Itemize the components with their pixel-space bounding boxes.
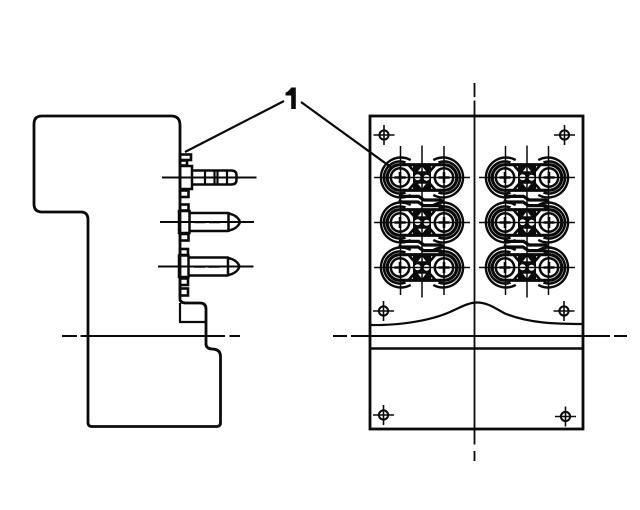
leader line left [185, 101, 284, 152]
left view centerline [62, 335, 240, 337]
hole top-left [374, 125, 395, 145]
link row1-2 right [505, 194, 548, 209]
right view lower inner line [370, 347, 583, 350]
tooth t8 [180, 289, 188, 296]
stud 2 cone tip [229, 214, 241, 231]
hole top-right [554, 125, 575, 145]
port feature row3 left [381, 248, 463, 288]
stud 1 thread lines [205, 171, 227, 185]
stud 3 shaft [189, 257, 228, 277]
tooth t4 [180, 205, 189, 211]
hole mid-left [373, 301, 394, 321]
port feature row2 left [381, 203, 463, 243]
stud 2 shaft [190, 212, 229, 232]
port feature row2 right [486, 203, 568, 243]
tooth t1 [180, 155, 191, 161]
stud 1 flange [180, 166, 192, 189]
port feature row1 left [381, 158, 463, 198]
feature grid thin lines right column [506, 146, 549, 298]
tooth t3 [180, 191, 189, 198]
right view horizontal centerline [333, 335, 627, 337]
stud 1 shaft [192, 171, 237, 185]
tooth t7 [180, 279, 188, 286]
tooth t6 [180, 249, 188, 255]
right view plate [370, 116, 583, 429]
label 1 [286, 88, 296, 110]
stud 3 centerline [158, 266, 254, 268]
port feature row1 right [486, 158, 568, 198]
stud 2 flange [179, 211, 190, 233]
feature grid thin lines left column [401, 146, 445, 298]
stud 2 dashed axis [195, 221, 221, 223]
left view outline [34, 116, 221, 427]
right view hump curve [370, 303, 583, 326]
right view vertical centerline [474, 83, 476, 461]
link row2-3 left [400, 239, 443, 254]
stud 3 dashed axis [194, 266, 220, 268]
port feature row3 right [486, 248, 568, 288]
tooth t2 [180, 161, 187, 166]
hole bottom-right [555, 407, 576, 427]
stud 1 centerline [162, 177, 257, 179]
hole mid-right [554, 301, 575, 321]
hole bottom-left [373, 405, 394, 425]
link row2-3 right [505, 239, 548, 254]
tooth t5 [180, 234, 189, 241]
link row1-2 left [400, 194, 443, 209]
stud 2 centerline [160, 221, 254, 223]
stud 3 flange [179, 256, 189, 278]
leader line right [301, 102, 392, 168]
left view foot inner edge [179, 303, 206, 322]
stud 3 cone tip [228, 258, 240, 275]
